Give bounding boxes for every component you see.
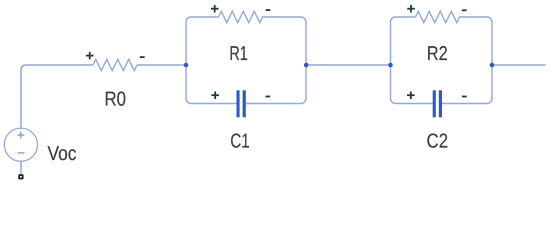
svg-text:C1: C1 — [230, 130, 250, 152]
voltage source plus sign — [17, 132, 24, 139]
loop 1 outline wires (R1 C1 parallel) — [186, 11, 306, 103]
capacitor C1 — [237, 90, 246, 117]
svg-text:R1: R1 — [229, 43, 248, 65]
wire: loop2 to output — [492, 64, 546, 66]
node C junction dot — [388, 63, 393, 68]
svg-text:R0: R0 — [104, 89, 126, 111]
R0 minus label — [140, 56, 145, 58]
R1 minus label — [266, 9, 271, 11]
svg-text:R2: R2 — [427, 43, 448, 65]
voltage source Voc circle — [4, 128, 37, 161]
C2 minus label — [462, 96, 467, 98]
wire: left vertical from source up and across to R0 — [21, 65, 93, 128]
R2 minus label — [462, 9, 467, 11]
wire: R0 to node A — [137, 64, 186, 66]
loop 2 outline wires (R2 C2 parallel) — [391, 11, 493, 103]
voltage source minus sign — [18, 152, 25, 154]
R2 plus label — [407, 5, 415, 13]
C1 plus label — [211, 91, 219, 99]
R0 plus label — [86, 52, 94, 60]
node B junction dot — [304, 63, 309, 68]
R1 plus label — [211, 5, 219, 13]
C2 plus label — [407, 91, 415, 99]
C1 minus label — [265, 96, 270, 98]
node D junction dot — [490, 63, 495, 68]
capacitor C2 — [433, 90, 442, 117]
wire: source bottom to ground port — [20, 161, 22, 174]
svg-text:Voc: Voc — [48, 143, 77, 165]
node A junction dot — [184, 63, 189, 68]
resistor R0 — [93, 59, 137, 70]
wire: loop1 to loop2 — [306, 64, 391, 66]
svg-text:C2: C2 — [427, 130, 449, 152]
ground reference port — [18, 174, 23, 179]
